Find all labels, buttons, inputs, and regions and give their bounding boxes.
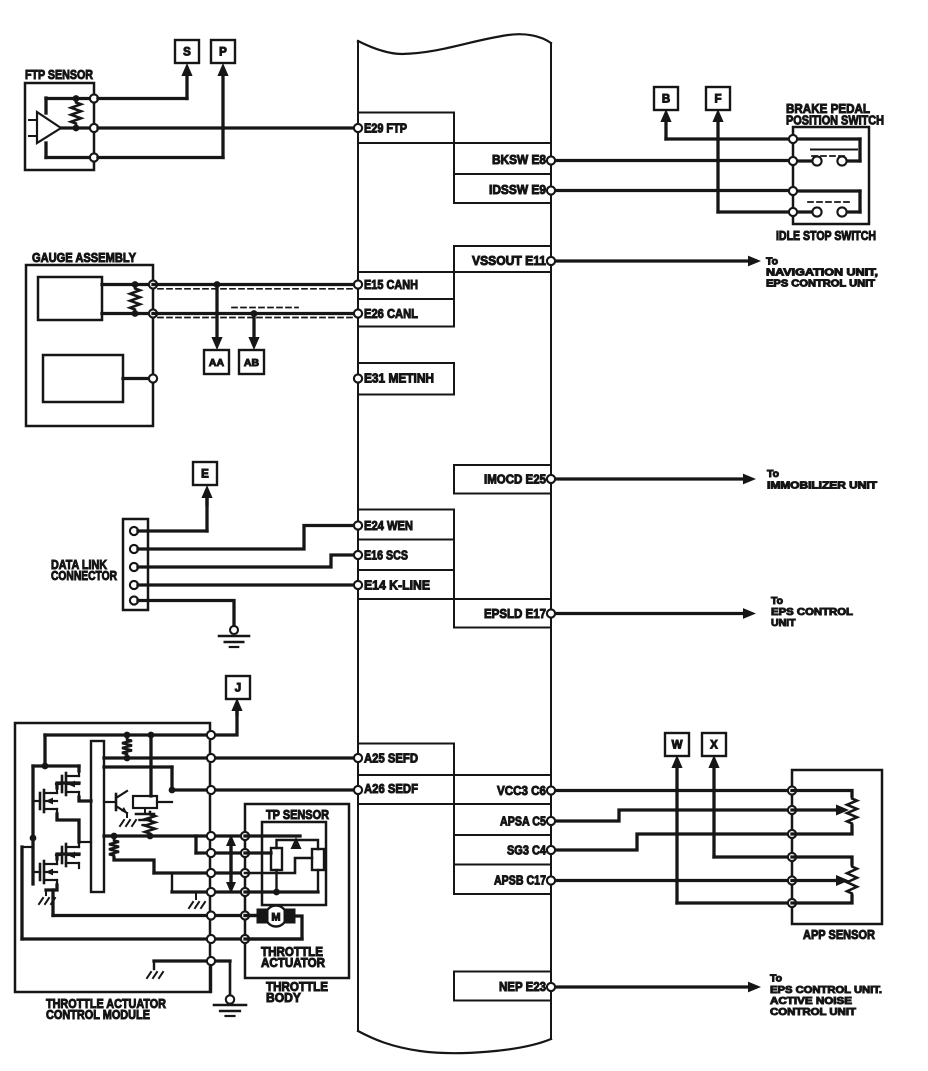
terminal module column y892 bbox=[207, 888, 215, 896]
gauge instrument block 2 bbox=[43, 355, 123, 402]
svg-text:NEP E23: NEP E23 bbox=[499, 979, 546, 994]
wire driver supply vertical bbox=[149, 735, 152, 796]
APP wiper 1 arrow bbox=[792, 808, 836, 811]
idle stop switch dashed contact bbox=[808, 201, 853, 203]
terminal FTP pin 3 bbox=[90, 153, 98, 161]
wire APP pot1 bottom bbox=[792, 826, 852, 834]
pin box group E29 FTP / BKSW E8 / IDSSW E9 bbox=[358, 112, 454, 114]
terminal throttle body y836 bbox=[241, 832, 249, 840]
resistor R top in module bbox=[122, 737, 132, 757]
svg-text:S: S bbox=[183, 47, 191, 59]
wire VSSOUT E11 to navigation unit bbox=[551, 259, 750, 262]
junction CANL tap to AB bbox=[251, 310, 258, 317]
MOSFET Q2 high-side right bbox=[61, 776, 64, 792]
svg-text:EPSLD E17: EPSLD E17 bbox=[484, 606, 546, 621]
module column junction vertical bbox=[210, 961, 212, 992]
wire gate rail upper bbox=[104, 765, 172, 768]
wire gauge block1 bottom to CANL bbox=[102, 312, 153, 315]
terminal VSSOUT E11 bbox=[547, 257, 555, 265]
wire TP right element bottom bbox=[317, 870, 319, 892]
TP sensor box bbox=[262, 822, 326, 905]
throttle body box bbox=[245, 804, 349, 978]
svg-text:VCC3 C6: VCC3 C6 bbox=[497, 783, 546, 798]
resistor inside FTP sensor bbox=[71, 100, 81, 126]
wire module inner left vertical bbox=[20, 847, 23, 939]
MOSFET Q3 low-side right bbox=[61, 847, 64, 863]
terminal DLC pin3 bbox=[130, 563, 138, 571]
terminal brake switch pin1 bbox=[789, 135, 797, 143]
terminal FTP pin 2 bbox=[90, 124, 98, 132]
terminal APP pin1 bbox=[788, 786, 796, 794]
sensor return rail bbox=[172, 890, 245, 893]
svg-text:IDSSW E9: IDSSW E9 bbox=[489, 182, 546, 197]
connector S bbox=[175, 40, 199, 63]
svg-text:B: B bbox=[662, 94, 670, 106]
wire DLC pin4 to ECM E14 K-LINE bbox=[138, 583, 358, 586]
ground 777 on sensor return bbox=[195, 892, 197, 899]
junction driver step bbox=[169, 787, 176, 794]
connector AB bbox=[239, 350, 264, 374]
resistor R2 in module bbox=[145, 812, 155, 836]
svg-text:E31 METINH: E31 METINH bbox=[364, 371, 434, 386]
terminal throttle body y853 bbox=[241, 849, 249, 857]
junction R2 bottom bbox=[147, 833, 154, 840]
terminal SG3 C4 bbox=[547, 846, 555, 854]
transistor Q driver bbox=[115, 794, 118, 810]
wire FTP internal top bbox=[46, 97, 94, 100]
wire driver step vertical bbox=[170, 767, 173, 790]
svg-text:AA: AA bbox=[209, 357, 225, 369]
pin box NEP E23 bbox=[454, 972, 551, 1001]
junction TP return bbox=[273, 889, 280, 896]
op-amp (pressure sensor element) inside FTP sensor bbox=[37, 112, 61, 143]
pin box E31 METINH bbox=[358, 363, 454, 395]
wire gauge block2 to METINH bbox=[123, 377, 153, 380]
svg-text:IMMOBILIZER UNIT: IMMOBILIZER UNIT bbox=[767, 480, 878, 492]
wire APP pot2 bottom bbox=[792, 896, 852, 903]
wire APP pot1 top bbox=[792, 791, 852, 797]
wire module ground stub bbox=[153, 961, 155, 969]
svg-text:VSSOUT E11: VSSOUT E11 bbox=[472, 253, 546, 268]
ECM/PCM band right edge bbox=[550, 43, 552, 1039]
ECM/PCM band top wavy break bbox=[358, 34, 551, 54]
wire APSA C5 to APP wiper 1 bbox=[551, 810, 792, 821]
terminal throttle body y873 bbox=[241, 869, 249, 877]
wire DLC pin5 to ground bbox=[138, 601, 234, 629]
TP wiper arrow bbox=[291, 837, 302, 849]
terminal gauge pin CANH bbox=[149, 280, 157, 288]
junction resistor bottom bbox=[73, 125, 80, 132]
junction CAN resistor bottom bbox=[132, 310, 139, 317]
APP wiper 2 arrow bbox=[792, 879, 836, 882]
motor return rail bbox=[22, 937, 302, 940]
terminal A25 SEFD bbox=[354, 754, 362, 762]
MOSFET Q4 low-side left bbox=[39, 864, 42, 880]
motor drive rail C bbox=[154, 871, 245, 874]
brake switch dashed contact bbox=[812, 155, 848, 157]
brake switch internal wiring bbox=[793, 137, 860, 140]
terminal module column y758 bbox=[207, 754, 215, 762]
motor M throttle actuator bbox=[266, 906, 287, 927]
svg-text:M: M bbox=[271, 912, 280, 924]
throttle actuator control module box bbox=[15, 723, 210, 992]
APP potentiometer 1 bbox=[847, 796, 857, 826]
connector P bbox=[211, 40, 235, 63]
wire top of H-bridge bbox=[33, 764, 79, 767]
svg-text:POSITION SWITCH: POSITION SWITCH bbox=[786, 113, 884, 128]
gauge instrument block 1 bbox=[38, 277, 102, 320]
wire IMOCD E25 to immobilizer unit bbox=[551, 477, 745, 480]
svg-text:To: To bbox=[767, 468, 779, 480]
terminal E26 CANL bbox=[354, 309, 362, 317]
junction CANH tap to AA bbox=[214, 281, 221, 288]
wire CANH gauge to ECM E15 CANH bbox=[153, 283, 358, 286]
terminal DLC pin1 bbox=[130, 527, 138, 535]
wire DLC pin2 to ECM E24 WEN bbox=[138, 526, 358, 550]
wire IDSSW E9 to idle stop switch pin 3 bbox=[551, 189, 793, 192]
terminal APP pin3 bbox=[788, 830, 796, 838]
connector AA bbox=[204, 350, 229, 374]
wire relay box to step bbox=[157, 801, 172, 803]
wire A25 SEFD rail bbox=[104, 756, 358, 759]
wire module top rail to connector J bbox=[211, 712, 237, 735]
terminal E14 K-LINE bbox=[354, 581, 362, 589]
svg-text:UNIT: UNIT bbox=[771, 617, 796, 629]
pin box group VSSOUT E11 / E15 CANH / E26 CANL bbox=[454, 245, 551, 247]
terminal IMOCD E25 bbox=[547, 475, 555, 483]
terminal E29 FTP bbox=[354, 124, 362, 132]
svg-text:X: X bbox=[710, 740, 718, 752]
terminal module column y790 bbox=[207, 786, 215, 794]
svg-text:P: P bbox=[219, 47, 227, 59]
terminal DLC pin2 bbox=[130, 545, 138, 553]
terminal module column y961 bbox=[207, 957, 215, 965]
terminal NEP E23 bbox=[547, 983, 555, 991]
wire VCC3 C6 to APP sensor bbox=[551, 789, 792, 792]
pin box group A25 SEFD / A26 SEDF / VCC3 C6 / APSA C5 / SG3 C4 / APSB C17 bbox=[358, 743, 454, 745]
wire TP signal bbox=[245, 851, 271, 854]
ECM/PCM band left edge bbox=[357, 41, 359, 1031]
wire connector B to brake switch pin 1 bbox=[664, 120, 667, 139]
terminal APP pin2 bbox=[788, 806, 796, 814]
terminal brake switch pin2 bbox=[789, 157, 797, 165]
terminal BKSW E8 bbox=[547, 156, 555, 164]
connector E bbox=[193, 462, 217, 485]
wire FTP internal bottom bbox=[46, 156, 94, 159]
MOSFET Q1 high-side left bbox=[39, 793, 42, 809]
svg-text:BKSW E8: BKSW E8 bbox=[492, 152, 546, 167]
FTP sensor box bbox=[25, 83, 94, 170]
terminal idle stop pin3 bbox=[789, 187, 797, 195]
data link connector box bbox=[123, 519, 148, 610]
wire SG3 C4 to APP sensor bbox=[551, 834, 792, 850]
ground 777 below Q4 bbox=[39, 898, 43, 904]
svg-text:EPS CONTROL UNIT: EPS CONTROL UNIT bbox=[766, 278, 876, 290]
svg-text:E29 FTP: E29 FTP bbox=[364, 121, 407, 136]
terminal APSB C17 bbox=[547, 876, 555, 884]
TP top link wiring bbox=[277, 840, 319, 849]
terminal A26 SEDF bbox=[354, 786, 362, 794]
APP sensor box bbox=[792, 770, 882, 924]
wire FTP pin3 to connector P bbox=[98, 156, 223, 159]
svg-text:AB: AB bbox=[244, 357, 260, 369]
connector B bbox=[654, 87, 678, 110]
svg-text:F: F bbox=[714, 94, 721, 106]
wire CANL tap down to connector AB bbox=[252, 314, 255, 340]
terminal APSA C5 bbox=[547, 817, 555, 825]
wire EPSLD E17 to EPS control unit bbox=[551, 612, 745, 615]
wire connector F to idle stop switch pin 4 bbox=[716, 120, 719, 212]
wire DLC pin3 to ECM E16 SCS bbox=[138, 555, 358, 567]
resistor R3 in module bbox=[109, 838, 119, 858]
motor feed rail bbox=[53, 914, 257, 917]
wire DLC pin1 to connector E bbox=[138, 529, 207, 532]
wire R3 bottom link bbox=[114, 858, 154, 873]
motor brush right bbox=[284, 909, 295, 923]
ground 777 below transistor bbox=[126, 813, 128, 817]
junction R top lower bbox=[124, 755, 131, 762]
svg-text:E15 CANH: E15 CANH bbox=[364, 277, 418, 292]
wire TP left element bottom bbox=[275, 870, 277, 892]
connector F bbox=[706, 87, 730, 110]
connector J bbox=[226, 676, 250, 699]
svg-text:IMOCD E25: IMOCD E25 bbox=[484, 472, 546, 487]
terminal E24 WEN bbox=[354, 521, 362, 529]
svg-text:E: E bbox=[201, 469, 209, 481]
wire CANL gauge to ECM E26 CANL bbox=[153, 312, 358, 315]
wire FTP pin1 to connector S bbox=[98, 97, 187, 100]
terminal module column y873 bbox=[207, 869, 215, 877]
driver IC bar in module bbox=[91, 741, 104, 892]
module ground rail bbox=[154, 959, 230, 962]
svg-text:E26 CANL: E26 CANL bbox=[364, 306, 418, 321]
junction top rail to driver bbox=[148, 732, 155, 739]
terminal E16 SCS bbox=[354, 551, 362, 559]
wire Q2 drain to bar bbox=[77, 766, 80, 771]
svg-text:J: J bbox=[235, 683, 241, 695]
wire APSB C17 to APP wiper 2 bbox=[551, 879, 792, 882]
ECM/PCM band bottom wavy break bbox=[358, 1031, 551, 1053]
brake/idle switch outer box bbox=[793, 127, 869, 224]
shield dashed line above CANL bbox=[232, 307, 298, 309]
svg-text:ACTUATOR: ACTUATOR bbox=[261, 955, 326, 970]
terminal APP pin6 bbox=[788, 899, 796, 907]
motor drive rail B step bbox=[194, 836, 197, 853]
terminal module column y836 bbox=[207, 832, 215, 840]
terminal module column y915 bbox=[207, 911, 215, 919]
svg-text:To: To bbox=[770, 973, 782, 985]
terminal EPSLD E17 bbox=[547, 609, 555, 617]
wire connector X to APP sensor mid bbox=[712, 766, 715, 857]
svg-text:CONTROL UNIT: CONTROL UNIT bbox=[770, 1006, 857, 1018]
brake switch contact bar bbox=[811, 149, 857, 151]
idle stop switch internal wiring bbox=[793, 189, 860, 192]
terminal throttle body y915 bbox=[241, 911, 249, 919]
svg-text:CONTROL MODULE: CONTROL MODULE bbox=[46, 1007, 150, 1022]
svg-text:APSB C17: APSB C17 bbox=[494, 873, 546, 888]
svg-text:SG3 C4: SG3 C4 bbox=[507, 843, 547, 858]
terminal VCC3 C6 bbox=[547, 786, 555, 794]
wire module left gate bus bbox=[31, 766, 34, 884]
wire FTP pin2 to ECM E29 FTP bbox=[98, 126, 358, 129]
wire BKSW E8 to brake switch pin 2 bbox=[551, 159, 793, 162]
wire Q4 drain link bbox=[57, 854, 79, 859]
wire CANH tap down to connector AA bbox=[215, 285, 218, 340]
terminal IDSSW E9 bbox=[547, 186, 555, 194]
terminal E31 METINH bbox=[354, 374, 362, 382]
wire gauge block1 top to CANH bbox=[102, 283, 153, 286]
wire TP ground step bbox=[245, 858, 312, 873]
TP potentiometer right element bbox=[312, 849, 324, 870]
ground earth below relay box bbox=[144, 808, 146, 813]
junction H-bridge supply bbox=[42, 763, 49, 770]
svg-text:FTP SENSOR: FTP SENSOR bbox=[25, 67, 93, 82]
wire Q4 source to ground bbox=[46, 885, 57, 890]
svg-text:A25 SEFD: A25 SEFD bbox=[364, 751, 418, 766]
svg-text:E16 SCS: E16 SCS bbox=[364, 548, 408, 563]
wire motor return loop bbox=[245, 916, 302, 939]
svg-text:E14 K-LINE: E14 K-LINE bbox=[364, 578, 430, 593]
junction R top upper bbox=[124, 732, 131, 739]
wire Q1 drain link bbox=[57, 783, 79, 788]
terminal E15 CANH bbox=[354, 280, 362, 288]
terminal idle stop pin4 bbox=[789, 208, 797, 216]
wire motor feed bbox=[245, 914, 257, 917]
motor drive rail A bbox=[104, 834, 245, 837]
wire TP supply into sensor bbox=[245, 834, 300, 837]
motor brush left bbox=[257, 909, 268, 923]
terminal DLC pin4 bbox=[130, 581, 138, 589]
svg-text:A26 SEDF: A26 SEDF bbox=[364, 781, 418, 796]
svg-text:BODY: BODY bbox=[266, 990, 301, 1005]
terminal module column y853 bbox=[207, 849, 215, 857]
terminal gauge pin METINH bbox=[149, 374, 157, 382]
terminal gauge pin CANL bbox=[149, 309, 157, 317]
wire FTP sensor internal left bus bbox=[44, 98, 47, 113]
gauge assembly box bbox=[26, 265, 153, 426]
shield dashed line below CANL bbox=[158, 317, 356, 319]
terminal APP pin5 bbox=[788, 876, 796, 884]
idle stop switch contact b bbox=[837, 207, 846, 216]
ground 777 module ground stub bbox=[147, 972, 151, 978]
wire Q2 source to bar bbox=[79, 797, 91, 801]
terminal DLC pin5 bbox=[130, 596, 138, 604]
svg-text:GAUGE ASSEMBLY: GAUGE ASSEMBLY bbox=[32, 250, 136, 265]
svg-text:CONNECTOR: CONNECTOR bbox=[51, 568, 117, 583]
svg-text:APSA C5: APSA C5 bbox=[500, 814, 546, 829]
main ground below module bbox=[229, 961, 232, 996]
wire APP pot2 top bbox=[792, 857, 852, 864]
idle stop switch contact a bbox=[812, 207, 821, 216]
svg-text:TP SENSOR: TP SENSOR bbox=[266, 807, 330, 822]
junction module left mid bbox=[30, 835, 37, 842]
relay coil box in module bbox=[133, 796, 157, 808]
ground for data link connector bbox=[230, 626, 238, 634]
wire TP return rail bbox=[245, 890, 318, 893]
terminal APP pin4 bbox=[788, 853, 796, 861]
shield dashed line below CANH bbox=[158, 288, 356, 290]
APP potentiometer 2 bbox=[847, 864, 857, 896]
wire Q1 source link bbox=[57, 814, 79, 842]
wire A26 SEDF rail bbox=[172, 788, 358, 791]
pin box group E24 WEN / E16 SCS / E14 K-LINE / EPSLD E17 bbox=[358, 509, 454, 511]
resistor CAN termination in gauge bbox=[130, 286, 140, 312]
brake switch contact b bbox=[837, 156, 846, 165]
terminal module column y735 bbox=[207, 731, 215, 739]
wire connector W to APP sensor low bbox=[675, 766, 678, 903]
junction R3 top bbox=[111, 833, 118, 840]
terminal throttle body y939 bbox=[241, 935, 249, 943]
pin box IMOCD E25 bbox=[454, 465, 551, 494]
terminal FTP pin 1 bbox=[90, 94, 98, 102]
svg-text:E24 WEN: E24 WEN bbox=[364, 518, 413, 533]
motor sense link with arrows bbox=[229, 843, 232, 885]
svg-text:IDLE STOP SWITCH: IDLE STOP SWITCH bbox=[776, 228, 876, 243]
terminal throttle body y892 bbox=[241, 888, 249, 896]
brake switch contact a bbox=[812, 156, 821, 165]
wire NEP E23 to EPS/active noise control units bbox=[551, 985, 750, 988]
svg-text:APP SENSOR: APP SENSOR bbox=[803, 927, 876, 942]
module top rail wire bbox=[45, 733, 211, 736]
junction resistor top bbox=[73, 95, 80, 102]
wire FTP internal output bbox=[61, 126, 94, 129]
junction CAN resistor top bbox=[132, 281, 139, 288]
connector X bbox=[702, 733, 726, 756]
connector W bbox=[665, 733, 689, 756]
terminal module column y939 bbox=[207, 935, 215, 943]
wire Q3 drain to bar bbox=[79, 841, 91, 843]
svg-text:W: W bbox=[672, 740, 683, 752]
TP potentiometer left element bbox=[271, 848, 282, 870]
